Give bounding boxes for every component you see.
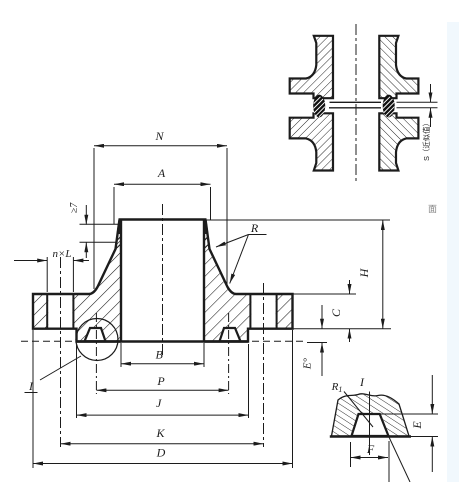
detail face line — [330, 435, 411, 438]
leader I — [40, 356, 81, 380]
svg-text:面: 面 — [428, 204, 437, 214]
dimension N — [93, 148, 95, 289]
blue strip right edge — [447, 22, 459, 482]
svg-text:E: E — [410, 421, 424, 430]
dimension nxL — [46, 257, 48, 292]
svg-text:D: D — [156, 446, 166, 460]
bolt hole left — [48, 294, 72, 329]
svg-text:J: J — [156, 396, 162, 410]
leader R1 — [344, 392, 373, 428]
dimension S — [397, 101, 438, 103]
svg-text:E°: E° — [302, 357, 314, 370]
flange body left hatched — [33, 220, 121, 342]
lower flange left half — [290, 113, 333, 170]
bolt hole right — [251, 294, 275, 329]
svg-text:H: H — [357, 267, 371, 278]
detail circle — [76, 319, 118, 361]
neck top extension — [205, 219, 390, 221]
svg-text:K: K — [155, 426, 165, 440]
flange top extension — [293, 293, 357, 295]
bolt centerline left — [60, 257, 62, 447]
outline left — [33, 220, 121, 342]
lower flange right half — [379, 113, 418, 170]
neck top edge — [119, 218, 207, 221]
bore wall right — [203, 220, 205, 342]
dimension D — [32, 330, 34, 468]
svg-text:C: C — [329, 308, 343, 317]
flange body right hatched — [204, 220, 293, 342]
svg-text:F: F — [366, 442, 375, 456]
upper flange right half — [379, 36, 418, 98]
svg-text:N: N — [154, 129, 164, 143]
detail block — [332, 394, 410, 436]
svg-text:S（近似值）: S（近似值） — [422, 119, 431, 161]
dimension K — [61, 443, 264, 445]
detail notch centerline — [369, 392, 371, 456]
dimension E0 — [307, 342, 327, 344]
flange bottom extension — [293, 328, 392, 330]
dimension H — [382, 220, 384, 329]
svg-text:A: A — [157, 166, 166, 180]
gasket left section — [313, 95, 325, 118]
outline right — [204, 220, 293, 342]
dimension C — [349, 280, 351, 294]
slanted leader from notch corner — [389, 436, 411, 482]
dimension E detail — [380, 413, 438, 415]
dimension J — [76, 345, 78, 418]
dimension F — [350, 442, 352, 467]
groove right trapezoid — [220, 328, 241, 341]
bore wall left — [120, 220, 122, 342]
dimension B — [120, 343, 122, 367]
svg-text:B: B — [156, 348, 164, 362]
groove left trapezoid — [85, 328, 106, 341]
face plane dashed line — [21, 340, 307, 342]
svg-text:P: P — [156, 374, 165, 388]
gasket face lines across bore — [330, 101, 382, 103]
gasket right section — [383, 95, 395, 118]
svg-text:n×L: n×L — [52, 248, 71, 260]
dimension ge7 — [80, 223, 119, 225]
assembly centerline — [355, 24, 357, 182]
dimension P — [95, 313, 97, 394]
weld bevel sliver dark right — [203, 220, 208, 234]
main centerline — [162, 204, 164, 356]
bolt centerline right — [263, 283, 265, 447]
detail groove notch — [352, 414, 389, 436]
upper flange left half — [290, 36, 333, 98]
weld bevel sliver dark left — [117, 220, 122, 234]
dimension A — [113, 187, 115, 224]
svg-text:≥7: ≥7 — [69, 202, 80, 213]
leader R — [249, 234, 267, 236]
face line — [77, 340, 249, 343]
svg-text:R: R — [250, 221, 259, 235]
